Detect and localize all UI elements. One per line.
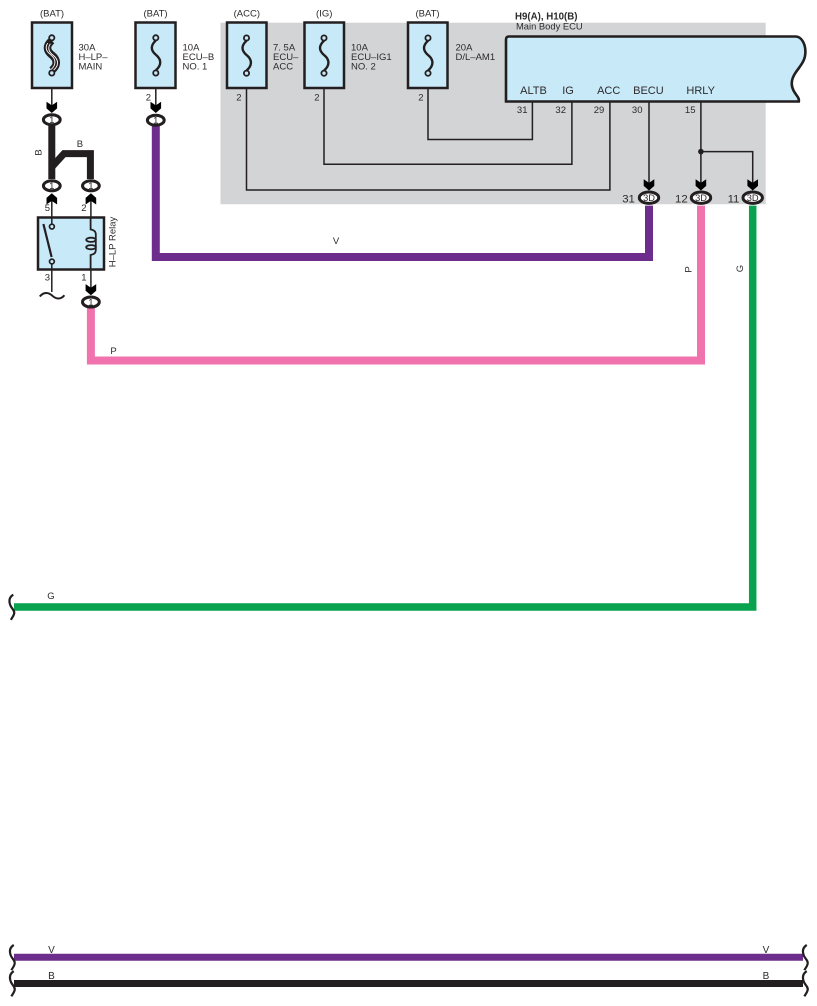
svg-text:ALTB: ALTB — [520, 85, 547, 97]
svg-text:Main Body ECU: Main Body ECU — [516, 20, 583, 31]
svg-text:G: G — [735, 265, 746, 272]
svg-text:2: 2 — [236, 93, 241, 104]
svg-text:2: 2 — [81, 203, 86, 214]
svg-text:P: P — [684, 266, 695, 272]
svg-text:B: B — [34, 149, 45, 155]
svg-text:V: V — [763, 945, 770, 956]
svg-text:31: 31 — [622, 193, 635, 205]
svg-text:(BAT): (BAT) — [415, 9, 439, 20]
svg-text:5: 5 — [45, 203, 50, 214]
svg-text:(IG): (IG) — [316, 9, 332, 20]
svg-text:G: G — [47, 591, 54, 602]
svg-text:2: 2 — [314, 93, 319, 104]
svg-text:11: 11 — [728, 193, 740, 205]
svg-text:2: 2 — [418, 93, 423, 104]
svg-text:BECU: BECU — [633, 85, 664, 97]
svg-text:V: V — [333, 236, 340, 247]
svg-text:NO. 2: NO. 2 — [351, 62, 376, 73]
svg-text:ACC: ACC — [273, 62, 293, 73]
svg-text:IG: IG — [562, 85, 574, 97]
svg-text:H–LP Relay: H–LP Relay — [108, 216, 119, 267]
svg-text:1: 1 — [81, 273, 86, 284]
svg-text:(BAT): (BAT) — [40, 9, 64, 20]
svg-text:(BAT): (BAT) — [143, 9, 167, 20]
svg-text:12: 12 — [675, 193, 688, 205]
svg-text:B: B — [48, 971, 55, 982]
svg-text:B: B — [77, 139, 83, 150]
svg-text:31: 31 — [517, 105, 528, 116]
svg-text:15: 15 — [685, 105, 696, 116]
svg-text:D/L–AM1: D/L–AM1 — [456, 52, 496, 63]
svg-text:V: V — [48, 945, 55, 956]
svg-text:2: 2 — [146, 93, 151, 104]
svg-text:29: 29 — [594, 105, 605, 116]
svg-text:NO. 1: NO. 1 — [183, 62, 208, 73]
svg-text:ACC: ACC — [597, 85, 620, 97]
svg-text:MAIN: MAIN — [79, 62, 103, 73]
svg-text:HRLY: HRLY — [686, 85, 715, 97]
svg-text:B: B — [763, 971, 770, 982]
svg-text:3: 3 — [45, 273, 50, 284]
svg-text:30: 30 — [632, 105, 643, 116]
svg-text:(ACC): (ACC) — [234, 9, 260, 20]
svg-text:P: P — [110, 346, 116, 357]
svg-text:32: 32 — [555, 105, 566, 116]
